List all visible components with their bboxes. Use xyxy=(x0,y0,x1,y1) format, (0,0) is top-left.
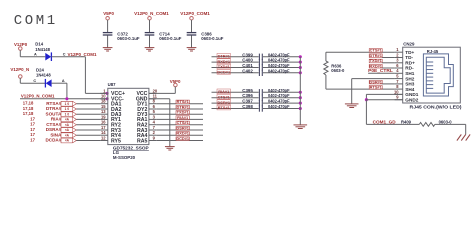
wire SOUTA to U87 xyxy=(76,113,100,115)
svg-text:C397: C397 xyxy=(242,99,253,104)
svg-text:SH4: SH4 xyxy=(405,87,415,92)
capacitor C397 xyxy=(259,100,262,106)
capacitor C396 xyxy=(259,95,262,101)
svg-text:17: 17 xyxy=(30,116,35,121)
diode D24 xyxy=(45,79,51,88)
svg-text:4: 4 xyxy=(153,120,156,125)
net label RXD#1 at C400 xyxy=(217,59,231,64)
U87 right pin 9 (RA5) xyxy=(149,140,156,142)
svg-text:A: A xyxy=(62,79,65,83)
wire RIA#1 to C395 xyxy=(212,91,259,93)
svg-text:0603-0.1uF: 0603-0.1uF xyxy=(117,36,140,41)
svg-text:RY5: RY5 xyxy=(111,138,121,144)
U87 right pin 4 (RA2) xyxy=(149,124,156,126)
svg-text:COM1: COM1 xyxy=(14,13,58,29)
capacitor C395 xyxy=(259,89,262,95)
wire DSR#1 to C397 xyxy=(212,102,259,104)
U87 left pin 18 (DA1) xyxy=(100,103,108,105)
CN29 pin 10 (GND1) xyxy=(395,93,403,95)
svg-text:0603-0: 0603-0 xyxy=(331,68,345,73)
wire R409 to earth xyxy=(435,123,466,125)
svg-text:17,18: 17,18 xyxy=(23,101,34,106)
U87 right pin 7 (RA3) xyxy=(149,129,156,131)
CN29 pin 6 (RD-) xyxy=(395,67,403,69)
wire U87 RA1 net stub xyxy=(156,118,203,120)
wire V5P0 to C372 xyxy=(107,20,109,32)
ground at U87 xyxy=(165,147,175,150)
U87 right pin 3 (RA1) xyxy=(149,118,156,120)
svg-text:17: 17 xyxy=(30,132,35,137)
svg-text:SINA: SINA xyxy=(50,132,62,137)
svg-text:C402: C402 xyxy=(242,68,253,73)
wire RXD#1 to C400 xyxy=(212,61,259,63)
U87 right pin 2 (RA4) xyxy=(149,134,156,136)
svg-text:GND1: GND1 xyxy=(405,92,418,97)
svg-text:DTR#1: DTR#1 xyxy=(370,53,383,58)
port flag RIA# xyxy=(61,117,76,122)
U87 left pin 12 (RY5) xyxy=(100,140,108,142)
CN29 pin 3 (RD+) xyxy=(395,62,403,64)
svg-text:DCDA#: DCDA# xyxy=(45,138,61,143)
svg-text:V12P0_N: V12P0_N xyxy=(10,67,29,72)
svg-text:×A: ×A xyxy=(65,128,70,132)
wire C372 to ground xyxy=(107,36,109,48)
capacitor C402 xyxy=(259,70,262,76)
U87 right pin 20 (VCC) xyxy=(149,92,156,94)
U87 left pin 17 (RY3) xyxy=(100,129,108,131)
wire C714 to ground xyxy=(149,36,151,48)
wire U87 DY1 net stub xyxy=(156,103,203,105)
U87 right pin 11 (GND) xyxy=(149,98,156,100)
wire U87 RA2 net stub xyxy=(156,124,203,126)
junction at C399 xyxy=(299,55,302,58)
capacitor C398 xyxy=(259,105,262,111)
wire V12P0_N to D24 xyxy=(19,78,21,83)
svg-text:5: 5 xyxy=(396,74,399,79)
net label DCD#1 xyxy=(176,136,190,141)
wire U87 RA3 net stub xyxy=(156,129,203,131)
net label DSR#1 at C397 xyxy=(217,100,231,105)
net label CTS#1 xyxy=(176,120,190,125)
wire CTS#1 to C396 xyxy=(212,97,259,99)
svg-text:16: 16 xyxy=(101,120,106,125)
svg-text:×A: ×A xyxy=(65,139,70,143)
wire GND1 xyxy=(366,93,402,95)
wire SH2 to ground xyxy=(352,78,395,80)
RJ45 jack graphic xyxy=(423,54,453,96)
port flag DSRA# xyxy=(61,128,76,133)
svg-text:RTS#1: RTS#1 xyxy=(177,99,190,104)
CN29 pin 4 (SH1) xyxy=(395,72,403,74)
svg-text:0402-470pF: 0402-470pF xyxy=(268,68,290,73)
wire CTSA# to U87 xyxy=(76,124,100,126)
junction at C395 xyxy=(299,91,302,94)
net label DTR#1 xyxy=(176,104,190,109)
wire net CTS#1 to TD+ xyxy=(326,51,395,53)
wire C398 to bus xyxy=(263,108,300,110)
svg-text:17: 17 xyxy=(30,138,35,143)
svg-text:M-SSOP20: M-SSOP20 xyxy=(113,155,136,160)
svg-text:CTS#1: CTS#1 xyxy=(177,120,190,125)
svg-text:CTS#1: CTS#1 xyxy=(370,48,383,53)
svg-text:8: 8 xyxy=(153,99,156,104)
svg-text:10: 10 xyxy=(394,89,399,94)
svg-text:0603-0.1uF: 0603-0.1uF xyxy=(159,36,182,41)
wire U87 RA5 net stub xyxy=(156,140,203,142)
junction at C398 xyxy=(299,107,302,110)
net label DTR#1 at CN29 xyxy=(369,53,382,58)
capacitor C401 xyxy=(259,64,262,70)
net label DSR#1 xyxy=(176,125,190,130)
net label TXD#1 xyxy=(176,110,190,115)
wire GND down to COM1_GD xyxy=(365,100,367,125)
capacitor C400 xyxy=(259,59,262,65)
svg-text:20: 20 xyxy=(153,88,158,93)
svg-text:V5P0: V5P0 xyxy=(103,11,114,16)
wire C400 to bus xyxy=(263,61,300,63)
svg-text:RTS#1: RTS#1 xyxy=(370,85,383,90)
capacitor C372 xyxy=(103,33,113,35)
svg-text:14: 14 xyxy=(101,130,106,135)
svg-text:C396: C396 xyxy=(242,93,253,98)
wire C402 to bus xyxy=(263,72,300,74)
svg-text:C400: C400 xyxy=(242,58,253,63)
wire C396 to bus xyxy=(263,97,300,99)
svg-text:DCD#1: DCD#1 xyxy=(217,70,231,75)
U87 right pin 5 (DY3) xyxy=(149,113,156,115)
svg-text:U87: U87 xyxy=(108,82,116,87)
svg-text:×A: ×A xyxy=(65,133,70,137)
svg-text:RIA#: RIA# xyxy=(51,117,62,122)
wire V12P0_COM1 to C386 xyxy=(191,20,193,32)
CN29 pin 7 (SH3) xyxy=(395,83,403,85)
svg-text:1 0: 1 0 xyxy=(65,102,70,106)
wire V12P0_N_COM1 to U87 pin 10 xyxy=(20,98,107,100)
svg-text:GND2: GND2 xyxy=(405,97,418,102)
port flag SOUTA xyxy=(61,112,76,117)
svg-text:SH1: SH1 xyxy=(405,71,415,76)
svg-text:0402-470pF: 0402-470pF xyxy=(268,93,290,98)
ground at SH2 xyxy=(345,104,359,108)
svg-text:6: 6 xyxy=(396,63,399,68)
svg-text:C395: C395 xyxy=(242,88,253,93)
junction at C401 xyxy=(299,66,302,69)
wire SINA to U87 xyxy=(76,134,100,136)
svg-text:0402-470pF: 0402-470pF xyxy=(268,52,290,57)
svg-text:0402-470pF: 0402-470pF xyxy=(268,63,290,68)
CN29 pin 8 (SH4) xyxy=(395,88,403,90)
wire pin 11 GND to ground xyxy=(149,98,170,100)
svg-text:RTSA#: RTSA# xyxy=(46,101,62,106)
wire C397 to bus xyxy=(263,102,300,104)
junction at diode node xyxy=(65,97,68,100)
svg-text:12: 12 xyxy=(101,135,106,140)
svg-text:TD+: TD+ xyxy=(405,50,414,55)
CN29 pin 5 (SH2) xyxy=(395,78,403,80)
diode D14 xyxy=(45,52,51,61)
net label TXD#1 at CN29 xyxy=(369,58,382,63)
net label RXD#1 xyxy=(176,131,190,136)
svg-text:CN29: CN29 xyxy=(403,42,415,47)
svg-text:RJ45 CON.(W/O LED): RJ45 CON.(W/O LED) xyxy=(410,104,463,109)
earth ground xyxy=(457,134,470,140)
port flag RTSA# xyxy=(61,101,76,106)
svg-text:RJ-45: RJ-45 xyxy=(427,49,439,54)
net label DTR#1 at C399 xyxy=(217,54,231,59)
wire U87 DY2 net stub xyxy=(156,108,203,110)
wire C401 to bus xyxy=(263,67,300,69)
capacitor C386 xyxy=(187,33,197,35)
svg-text:×A: ×A xyxy=(65,123,70,127)
wire D14 to U87 pin 1 xyxy=(51,56,85,58)
svg-text:2: 2 xyxy=(396,52,399,57)
ground under C372 xyxy=(103,48,113,51)
svg-text:V12P0_N_COM1: V12P0_N_COM1 xyxy=(21,94,55,99)
U87 left pin 13 (DA3) xyxy=(100,113,108,115)
svg-text:RXD#1: RXD#1 xyxy=(176,131,189,136)
CN29 pin 2 (TD-) xyxy=(395,57,403,59)
wire V5P0 to pin 20 xyxy=(174,87,176,94)
U87 left pin 10 (VCC-) xyxy=(100,98,108,100)
svg-text:SH2: SH2 xyxy=(405,76,415,81)
wire to R409 xyxy=(366,123,419,125)
junction at pin 10 xyxy=(106,97,109,100)
wire DTRA# to U87 xyxy=(76,108,100,110)
wire DSRA# to U87 xyxy=(76,129,100,131)
svg-text:RA5: RA5 xyxy=(137,138,147,144)
wire TXD#1 to C401 xyxy=(212,67,259,69)
net label DSR#1 at CN29 xyxy=(369,79,383,84)
net label RXD#1 at CN29 xyxy=(369,63,383,68)
svg-text:C: C xyxy=(63,52,66,56)
net label CTS#1 at C396 xyxy=(217,94,231,99)
net label RTS#1 at CN29 xyxy=(369,85,382,90)
wire DCD#1 to C402 xyxy=(212,72,259,74)
wire U87 DY3 net stub xyxy=(156,113,203,115)
svg-text:9: 9 xyxy=(396,95,399,100)
wire DCDA# to U87 xyxy=(76,140,100,142)
svg-text:0402-470pF: 0402-470pF xyxy=(268,58,290,63)
svg-text:4: 4 xyxy=(396,68,399,73)
svg-text:18: 18 xyxy=(101,99,106,104)
svg-text:D14: D14 xyxy=(35,42,43,47)
svg-text:RD-: RD- xyxy=(405,66,414,71)
svg-text:1: 1 xyxy=(396,47,399,52)
CN29 pin 1 (TD+) xyxy=(395,51,403,53)
port flag DTRA# xyxy=(61,107,76,112)
svg-text:CTSA#: CTSA# xyxy=(46,122,62,127)
ground of cap bank xyxy=(294,125,308,129)
svg-text:0402-470pF: 0402-470pF xyxy=(268,104,290,109)
wire R636 top xyxy=(325,52,327,61)
svg-text:1N4148: 1N4148 xyxy=(35,47,50,52)
svg-text:R409: R409 xyxy=(401,120,412,125)
svg-text:CTS#1: CTS#1 xyxy=(218,94,231,99)
wire V12P0 to D14 xyxy=(19,50,21,57)
U87 left pin 16 (RY2) xyxy=(100,124,108,126)
wire C399 to bus xyxy=(263,56,300,58)
svg-text:C: C xyxy=(33,79,36,83)
svg-text:TXD#1: TXD#1 xyxy=(218,64,231,69)
U87 right pin 8 (DY1) xyxy=(149,103,156,105)
svg-text:C399: C399 xyxy=(242,52,253,57)
svg-text:0603-0.1uF: 0603-0.1uF xyxy=(201,36,224,41)
svg-text:0402-470pF: 0402-470pF xyxy=(268,88,290,93)
wire U87 RA4 net stub xyxy=(156,134,203,136)
wire GND2 xyxy=(366,99,402,101)
svg-text:0402-470pF: 0402-470pF xyxy=(268,99,290,104)
svg-text:C401: C401 xyxy=(242,63,253,68)
svg-text:2: 2 xyxy=(153,130,156,135)
ground under C386 xyxy=(187,48,197,51)
net label RTS#1 at C398 xyxy=(217,105,231,110)
junction at C397 xyxy=(299,102,302,105)
svg-text:V12P0_N_COM1: V12P0_N_COM1 xyxy=(134,11,169,16)
connector CN29 body xyxy=(403,47,461,103)
svg-text:P0E_CTRL: P0E_CTRL xyxy=(368,68,393,73)
svg-text:DSR#1: DSR#1 xyxy=(217,100,230,105)
junction at C400 xyxy=(299,61,302,64)
resistor R636 xyxy=(324,61,328,75)
U87 left pin 1 (VCC+) xyxy=(100,92,108,94)
port flag SINA xyxy=(61,133,76,138)
U87 left pin 15 (DA2) xyxy=(100,108,108,110)
port flag DCDA# xyxy=(61,138,76,143)
svg-text:1 0: 1 0 xyxy=(65,107,70,111)
ground under C714 xyxy=(145,48,155,51)
svg-text:19: 19 xyxy=(101,114,106,119)
junction at C402 xyxy=(299,71,302,74)
net label CTS#1 at CN29 xyxy=(369,48,382,53)
net label TXD#1 at C401 xyxy=(217,64,231,69)
wire R636 bottom to SH4 xyxy=(325,75,327,89)
U87 right pin 6 (DY2) xyxy=(149,108,156,110)
svg-text:1: 1 xyxy=(103,88,106,93)
wire C395 to bus xyxy=(263,91,300,93)
svg-text:DTR#1: DTR#1 xyxy=(218,54,231,59)
wire RTSA# to U87 xyxy=(76,103,100,105)
wire RIA# to U87 xyxy=(76,118,100,120)
wire RTS#1 to C398 xyxy=(212,108,259,110)
svg-text:A: A xyxy=(34,52,37,56)
wire DTR#1 to C399 xyxy=(212,56,259,58)
svg-text:17: 17 xyxy=(30,122,35,127)
port flag CTSA# xyxy=(61,122,76,127)
svg-text:V12P0_COM1: V12P0_COM1 xyxy=(180,11,210,16)
net label RIA#1 xyxy=(176,115,189,120)
net label RIA#1 at C395 xyxy=(217,89,231,94)
svg-text:C398: C398 xyxy=(242,104,253,109)
svg-text:3: 3 xyxy=(153,114,156,119)
svg-text:TD-: TD- xyxy=(405,55,413,60)
net label DCD#1 at C402 xyxy=(217,70,231,75)
svg-text:1 0: 1 0 xyxy=(65,112,70,116)
wire V12P0_N_COM1 to C714 xyxy=(149,20,151,32)
junction GND2 xyxy=(365,98,368,101)
svg-text:9: 9 xyxy=(153,135,156,140)
capacitor C714 xyxy=(145,33,155,35)
resistor R409 xyxy=(419,123,435,127)
junction at C396 xyxy=(299,96,302,99)
wire C386 to ground xyxy=(191,36,193,48)
U87 left pin 19 (RY1) xyxy=(100,118,108,120)
CN29 pin 9 (GND2) xyxy=(395,99,403,101)
svg-text:RTS#1: RTS#1 xyxy=(218,105,231,110)
capacitor C399 xyxy=(259,54,262,60)
IC U87 body xyxy=(108,88,149,144)
svg-text:1N4148: 1N4148 xyxy=(36,73,51,78)
svg-text:DCD#1: DCD#1 xyxy=(176,136,190,141)
svg-text:8: 8 xyxy=(396,84,399,89)
svg-text:RXD#1: RXD#1 xyxy=(217,59,230,64)
ground bus xyxy=(299,57,301,125)
net label RTS#1 xyxy=(176,99,190,104)
wire D24 to node xyxy=(52,82,67,84)
svg-text:RIA#1: RIA#1 xyxy=(177,115,189,120)
U87 left pin 14 (RY4) xyxy=(100,134,108,136)
svg-text:RIA#1: RIA#1 xyxy=(218,89,230,94)
svg-text:×A: ×A xyxy=(65,118,70,122)
junction at pin 1 xyxy=(106,92,109,95)
